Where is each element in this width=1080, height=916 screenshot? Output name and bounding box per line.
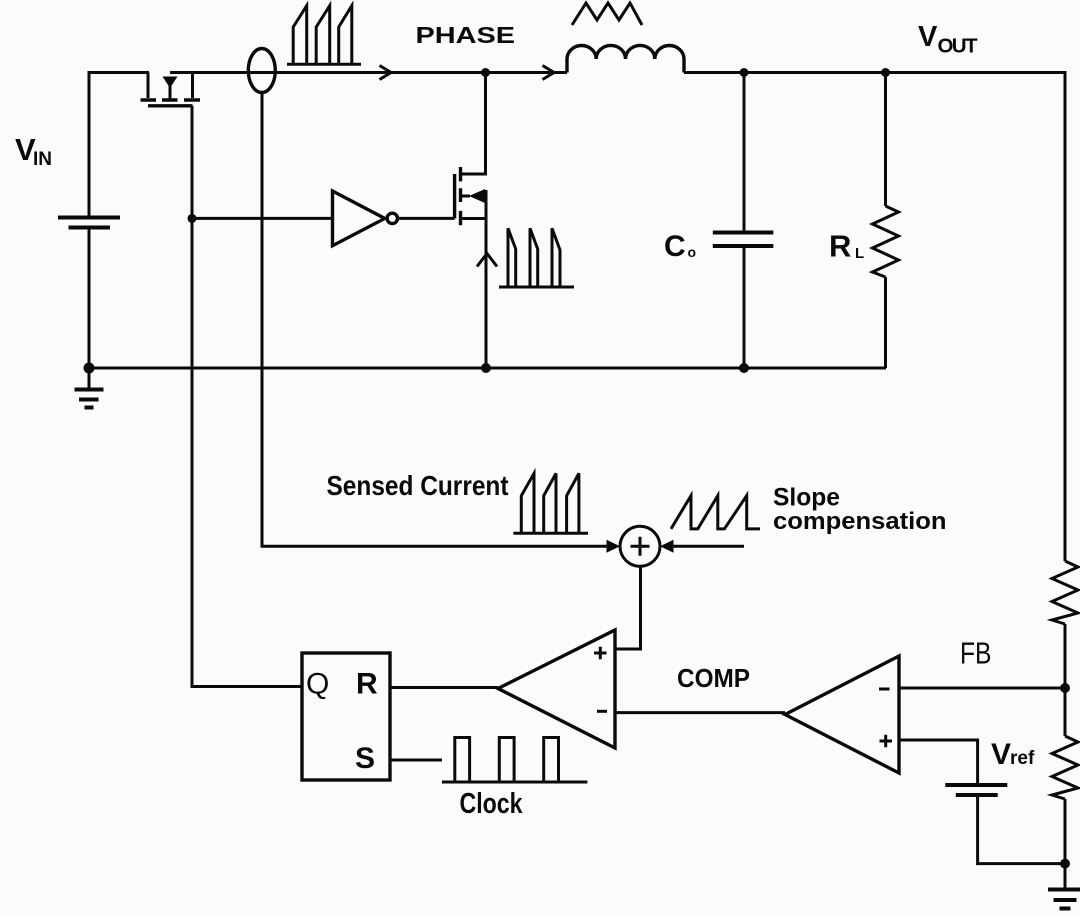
transistor Q2 (low-side n-channel MOSFET) (455, 167, 486, 225)
svg-text:S: S (355, 742, 375, 775)
svg-text:R: R (829, 229, 851, 264)
comparator + sign (594, 647, 607, 660)
svg-text:V: V (991, 738, 1011, 771)
wire: PHASE line (Q1 to phase node to inductor) (170, 71, 567, 74)
battery Vref (945, 785, 1007, 795)
svg-text:R: R (356, 668, 378, 701)
resistor R1 (upper divider) (1052, 561, 1078, 624)
waveform: clock square pulses (442, 738, 587, 783)
error amp + sign (880, 735, 893, 748)
node: Co junction top (740, 68, 749, 77)
svg-text:OUT: OUT (938, 35, 978, 58)
svg-text:C: C (664, 230, 686, 263)
node: phase junction (481, 68, 490, 77)
wire: VIN rail top-left corner (89, 73, 149, 219)
arrow up on Q2 source line (477, 254, 497, 267)
error amp - sign (879, 688, 890, 691)
waveform: switch current (ramp pulses) at PHASE (287, 6, 361, 65)
wire: latch R input from comparator output (390, 686, 498, 689)
svg-text:COMP: COMP (677, 663, 750, 693)
SR latch U4 (302, 653, 390, 780)
svg-text:compensation: compensation (773, 508, 947, 535)
node: gate junction (188, 214, 197, 223)
wire: inverter output to Q2 gate (398, 217, 455, 220)
comparator - sign (597, 710, 607, 713)
wire: phase node down to Q2 drain (461, 73, 486, 175)
wire: RL branch (884, 73, 887, 369)
arrowhead into summer (left) (607, 540, 621, 553)
label Vref (991, 738, 1035, 771)
ground (left) (75, 368, 104, 408)
wire: Vref to divider bottom (978, 795, 1065, 864)
ground rail (bottom of power stage) (89, 367, 886, 370)
inverter U1 (333, 191, 398, 246)
arrowhead into summer (right) (660, 540, 674, 553)
wire: battery to ground rail (88, 228, 91, 369)
error amplifier U3 (785, 656, 899, 773)
wire: slope compensation into summer (672, 545, 744, 548)
node: FB junction (1060, 683, 1070, 693)
svg-text:IN: IN (33, 149, 52, 170)
svg-text:V: V (918, 21, 938, 53)
wire: Co branch (743, 73, 746, 369)
inductor L (567, 45, 684, 72)
current sensor (ellipse) (248, 49, 275, 93)
capacitor Co (713, 233, 774, 247)
resistor R2 (lower divider) (1052, 736, 1078, 799)
node: RL junction top (881, 68, 890, 77)
svg-text:Q: Q (306, 668, 329, 701)
wire: FB line (899, 687, 1065, 690)
battery VIN (58, 218, 120, 228)
waveform: low-side current pulses (499, 228, 574, 287)
node: VIN/ground junction (84, 363, 95, 374)
node: divider bottom junction (1060, 859, 1070, 869)
arrow on phase wire (380, 66, 392, 80)
wire: gate node to inverter input (192, 217, 333, 220)
wire: error amp + input to Vref (899, 740, 978, 785)
label RL (829, 229, 864, 264)
svg-text:o: o (688, 244, 697, 260)
waveform: inductor current (triangle wave) (572, 3, 642, 25)
svg-text:L: L (855, 245, 864, 262)
label VIN (15, 132, 52, 170)
svg-text:FB: FB (960, 636, 992, 671)
wire: latch S input stub (390, 759, 442, 762)
svg-text:Clock: Clock (460, 788, 524, 820)
label VOUT (918, 21, 978, 58)
wire: Q1 gate / latch Q line (192, 106, 302, 687)
wire: divider middle (1064, 624, 1067, 736)
svg-text:PHASE: PHASE (416, 22, 516, 48)
comparator U2 (PWM comparator) (498, 630, 615, 748)
node: Co junction bottom (739, 363, 749, 373)
wire: divider to ground (1064, 799, 1067, 888)
node: Q2 source / ground rail (481, 363, 491, 373)
arrow before inductor (543, 66, 555, 80)
svg-text:Sensed Current: Sensed Current (327, 470, 509, 501)
transistor Q1 (high-side p-channel MOSFET) (141, 73, 201, 106)
wire: summer output to comparator + input (615, 566, 641, 649)
label Slope compensation (773, 484, 947, 536)
svg-text:ref: ref (1010, 748, 1035, 769)
resistor RL (873, 206, 899, 277)
wire: Q2 source to ground rail (485, 190, 488, 368)
ground (right) (1048, 890, 1080, 909)
wire: sensed current line from sensor to summer (262, 92, 608, 546)
summer node (circle with plus) (620, 526, 660, 566)
waveform: slope compensation sawtooth (671, 496, 760, 529)
label Co (664, 230, 696, 263)
wire: VOUT rail (684, 73, 1065, 562)
waveform: sensed current pulses (513, 473, 588, 533)
wire: COMP line (error amp out to comparator - input) (615, 711, 785, 714)
